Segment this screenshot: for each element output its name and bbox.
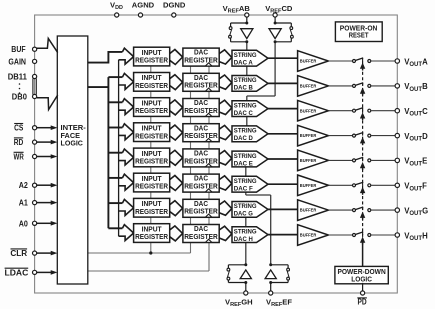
svg-text:STRING: STRING — [234, 228, 257, 235]
svg-text:BUF: BUF — [11, 45, 26, 54]
svg-text:BUFFER: BUFFER — [300, 183, 317, 188]
svg-text:DAC E: DAC E — [234, 160, 254, 167]
svg-text:DAC G: DAC G — [234, 211, 253, 218]
svg-text:STRING: STRING — [234, 178, 257, 185]
svg-text:BUFFER: BUFFER — [300, 133, 317, 138]
svg-text:STRING: STRING — [234, 128, 257, 135]
svg-text:BUFFER: BUFFER — [300, 158, 317, 163]
svg-text:REGISTER: REGISTER — [184, 182, 218, 191]
svg-text:REGISTER: REGISTER — [135, 207, 169, 216]
svg-text:REGISTER: REGISTER — [184, 106, 218, 115]
svg-text:DAC B: DAC B — [234, 85, 253, 92]
svg-text:STRING: STRING — [234, 77, 257, 84]
svg-text:DB11: DB11 — [8, 73, 28, 82]
svg-text:STRING: STRING — [234, 102, 257, 109]
svg-text:REGISTER: REGISTER — [184, 81, 218, 90]
svg-text:RD: RD — [14, 138, 24, 147]
svg-text:REGISTER: REGISTER — [135, 232, 169, 241]
svg-text:DAC C: DAC C — [234, 110, 253, 117]
svg-text:A0: A0 — [19, 219, 29, 228]
svg-text:RESET: RESET — [349, 30, 369, 39]
svg-text:CS: CS — [14, 124, 23, 133]
svg-text:STRING: STRING — [234, 153, 257, 160]
svg-text:PD: PD — [358, 298, 368, 307]
svg-text:LOGIC: LOGIC — [61, 139, 84, 148]
svg-text:A1: A1 — [19, 199, 29, 208]
svg-text:REGISTER: REGISTER — [184, 56, 218, 65]
svg-text:DB0: DB0 — [12, 93, 28, 102]
svg-text:A2: A2 — [19, 181, 29, 190]
svg-text:DAC A: DAC A — [234, 60, 253, 67]
svg-text:GAIN: GAIN — [8, 57, 26, 66]
svg-text:AGND: AGND — [132, 0, 155, 9]
svg-text:REGISTER: REGISTER — [184, 232, 218, 241]
svg-text:REGISTER: REGISTER — [135, 182, 169, 191]
svg-text:REGISTER: REGISTER — [184, 156, 218, 165]
svg-text:REGISTER: REGISTER — [135, 157, 169, 166]
svg-text:BUFFER: BUFFER — [300, 108, 317, 113]
svg-text:BUFFER: BUFFER — [300, 233, 317, 238]
svg-text:STRING: STRING — [234, 203, 257, 210]
svg-text:REGISTER: REGISTER — [184, 131, 218, 140]
svg-text:REGISTER: REGISTER — [135, 131, 169, 140]
svg-text:DAC H: DAC H — [234, 236, 253, 243]
svg-text:STRING: STRING — [234, 52, 257, 59]
svg-text:BUFFER: BUFFER — [300, 59, 317, 64]
svg-text:REGISTER: REGISTER — [135, 106, 169, 115]
svg-text:REGISTER: REGISTER — [135, 81, 169, 90]
svg-text:DAC D: DAC D — [234, 135, 253, 142]
svg-text:LOGIC: LOGIC — [351, 274, 372, 283]
svg-text:REGISTER: REGISTER — [184, 207, 218, 216]
svg-text:WR: WR — [14, 153, 25, 162]
svg-text:BUFFER: BUFFER — [300, 84, 317, 89]
svg-text:CLR: CLR — [10, 249, 27, 258]
svg-text:DAC F: DAC F — [234, 186, 253, 193]
svg-text:BUFFER: BUFFER — [300, 208, 317, 213]
svg-text:LDAC: LDAC — [5, 268, 29, 277]
svg-text:DGND: DGND — [163, 0, 186, 9]
svg-text:REGISTER: REGISTER — [135, 56, 169, 65]
